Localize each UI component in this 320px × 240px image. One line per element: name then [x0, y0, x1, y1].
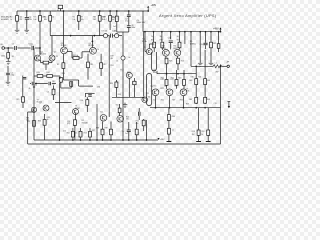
svg-text:10k: 10k: [81, 19, 84, 21]
svg-text:Q2: Q2: [54, 51, 56, 53]
svg-text:R??: R??: [127, 72, 130, 74]
svg-text:Argent Xeno Amplifier (UPS): Argent Xeno Amplifier (UPS): [159, 13, 217, 18]
svg-text:R9: R9: [57, 64, 59, 66]
svg-text:L1: L1: [215, 63, 217, 65]
svg-text:R38: R38: [96, 128, 99, 130]
svg-text:C1: C1: [12, 44, 14, 46]
svg-text:BC546: BC546: [88, 45, 94, 47]
svg-text:BC556: BC556: [37, 102, 42, 104]
svg-text:2k2: 2k2: [192, 134, 195, 136]
svg-text:4R7: 4R7: [215, 71, 218, 73]
svg-text:R11: R11: [90, 64, 93, 66]
svg-text:C14: C14: [63, 131, 66, 133]
svg-text:R45: R45: [191, 76, 194, 78]
svg-text:2k: 2k: [29, 88, 31, 90]
svg-text:100kΩ/R: 100kΩ/R: [1, 19, 10, 21]
svg-text:C10: C10: [67, 121, 70, 123]
svg-text:0.22: 0.22: [171, 79, 174, 81]
svg-text:4k7: 4k7: [111, 58, 114, 60]
svg-text:R43: R43: [178, 78, 181, 80]
svg-text:C5: C5: [47, 92, 49, 94]
svg-text:R29: R29: [16, 99, 19, 101]
svg-text:T12: T12: [146, 93, 149, 95]
svg-text:C9b: C9b: [97, 87, 100, 89]
svg-text:R37: R37: [92, 130, 95, 132]
svg-text:D6: D6: [128, 57, 130, 59]
svg-text:R46: R46: [198, 76, 201, 78]
svg-text:IN: IN: [1, 44, 4, 46]
svg-text:R13: R13: [37, 72, 40, 74]
svg-text:R35: R35: [110, 83, 113, 85]
svg-text:630: 630: [126, 119, 129, 121]
svg-text:R49: R49: [186, 104, 189, 106]
svg-text:2k2: 2k2: [93, 19, 96, 21]
svg-text:R26: R26: [181, 60, 184, 62]
svg-text:T18: T18: [172, 100, 175, 102]
svg-text:4k7: 4k7: [52, 84, 55, 86]
svg-text:4k7: 4k7: [104, 19, 107, 21]
svg-text:C1b: C1b: [121, 131, 124, 133]
svg-text:R1b: R1b: [112, 17, 115, 19]
svg-text:R14: R14: [47, 72, 50, 74]
svg-text:R25: R25: [169, 60, 172, 62]
svg-text:D3: D3: [102, 31, 104, 33]
svg-text:C10: C10: [80, 100, 83, 102]
svg-text:1N4148: 1N4148: [82, 122, 88, 124]
svg-text:R1: R1: [12, 56, 14, 58]
svg-text:R5 10k: R5 10k: [73, 55, 79, 57]
svg-text:T10: T10: [116, 104, 119, 106]
svg-text:T21: T21: [100, 112, 103, 114]
svg-text:T11: T11: [148, 96, 151, 98]
svg-text:10k: 10k: [33, 19, 36, 21]
svg-text:R48: R48: [207, 99, 210, 101]
svg-text:C19: C19: [214, 103, 217, 105]
svg-text:1n5: 1n5: [113, 26, 116, 28]
svg-text:22k: 22k: [26, 120, 29, 122]
svg-text:R282: R282: [173, 48, 177, 50]
svg-text:R33: R33: [38, 120, 41, 122]
svg-text:1k: 1k: [10, 19, 12, 21]
svg-text:10k: 10k: [72, 19, 75, 21]
svg-text:R51: R51: [161, 100, 164, 102]
svg-text:BC550: BC550: [41, 54, 47, 56]
svg-text:R35: R35: [118, 94, 121, 96]
svg-text:100nF 63V: 100nF 63V: [137, 22, 147, 24]
svg-text:R60: R60: [172, 116, 175, 118]
svg-text:C11: C11: [168, 37, 171, 39]
svg-text:1k: 1k: [201, 134, 203, 136]
svg-text:(R?): (R?): [67, 123, 71, 125]
svg-text:680: 680: [136, 123, 139, 125]
svg-text:R58: R58: [192, 131, 195, 133]
svg-text:47u: 47u: [29, 19, 32, 21]
svg-text:R15: R15: [151, 40, 154, 42]
svg-text:D3: D3: [105, 30, 107, 32]
svg-text:R53: R53: [84, 133, 87, 135]
svg-text:R21: R21: [213, 43, 216, 45]
svg-text:+48V: +48V: [213, 28, 219, 31]
svg-text:T3: T3: [64, 49, 66, 51]
svg-text:0.22: 0.22: [161, 79, 164, 81]
svg-text:100n: 100n: [131, 27, 135, 29]
svg-text:T16: T16: [164, 86, 167, 88]
svg-text:+SP: +SP: [226, 61, 230, 63]
svg-text:P1: P1: [35, 85, 37, 87]
svg-text:100k: 100k: [1, 55, 5, 57]
svg-text:(R?): (R?): [186, 91, 190, 93]
svg-text:R17: R17: [177, 40, 180, 42]
svg-text:T15: T15: [153, 86, 156, 88]
svg-text:R47: R47: [189, 99, 192, 101]
svg-text:T?: T?: [172, 130, 174, 132]
svg-text:R45: R45: [189, 80, 192, 82]
svg-text:1k: 1k: [47, 119, 49, 121]
svg-text:47u: 47u: [125, 21, 128, 23]
svg-text:C6: C6: [116, 61, 118, 63]
svg-text:1k: 1k: [52, 17, 54, 19]
svg-text:C1: C1: [30, 45, 32, 47]
svg-text:R52: R52: [67, 133, 70, 135]
svg-text:R12: R12: [103, 64, 106, 66]
svg-text:R59: R59: [201, 131, 204, 133]
svg-text:R16: R16: [160, 40, 163, 42]
svg-text:10k: 10k: [44, 19, 47, 21]
svg-text:T1B: T1B: [120, 70, 124, 72]
svg-text:R39: R39: [105, 128, 108, 130]
svg-text:R12: R12: [111, 65, 114, 67]
svg-text:100n: 100n: [153, 72, 157, 74]
svg-text:F1: F1: [57, 10, 59, 12]
svg-text:R5: R5: [56, 56, 58, 58]
svg-text:+48V: +48V: [151, 4, 157, 7]
svg-text:R13A: R13A: [142, 40, 147, 43]
svg-text:0R22: 0R22: [160, 88, 164, 90]
svg-text:1k: 1k: [151, 36, 153, 38]
svg-text:R46: R46: [207, 80, 210, 82]
svg-text:2k2: 2k2: [160, 36, 163, 38]
svg-text:R50: R50: [136, 121, 139, 123]
svg-text:R52: R52: [180, 100, 183, 102]
svg-text:T4: T4: [97, 49, 99, 51]
svg-text:T17: T17: [153, 100, 156, 102]
svg-text:-48V: -48V: [160, 139, 165, 141]
svg-text:220p: 220p: [10, 75, 14, 77]
svg-text:R13: R13: [62, 73, 65, 75]
svg-text:R281: R281: [162, 48, 166, 50]
svg-text:D4: D4: [114, 30, 116, 32]
svg-text:56: 56: [177, 36, 179, 38]
svg-text:T16: T16: [174, 86, 177, 88]
svg-text:2n2: 2n2: [125, 133, 128, 135]
svg-text:1W: 1W: [19, 19, 22, 21]
